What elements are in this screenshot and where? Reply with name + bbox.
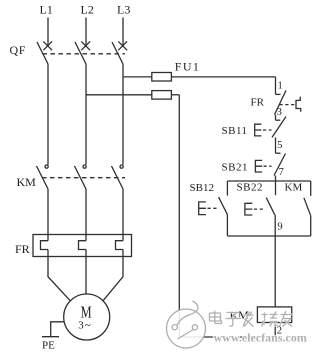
wire FR to SB11	[275, 115, 277, 121]
SB12 dashed link	[208, 207, 218, 209]
wire control bus corner down	[275, 77, 277, 95]
PE wire	[51, 322, 65, 337]
SB11 dashed link	[263, 129, 272, 131]
svg-text:9: 9	[277, 222, 282, 233]
svg-text:5: 5	[277, 140, 282, 151]
svg-text:L1: L1	[40, 3, 53, 17]
svg-text:www.elecfans.com: www.elecfans.com	[214, 331, 307, 345]
contactor KM main contact pole 3	[112, 165, 124, 189]
wire fuse FU1a to control bus	[171, 76, 275, 78]
pushbutton SB22 NO branch wires	[274, 181, 276, 236]
svg-text:FR: FR	[15, 242, 30, 256]
wire bottom return	[179, 336, 275, 338]
svg-text:L3: L3	[117, 3, 130, 17]
wire L3 KM to FR	[122, 189, 124, 241]
wire SB11 to SB21	[275, 137, 277, 153]
SB12 NO contact blade	[219, 197, 228, 215]
contactor KM main contact pole 2	[75, 165, 87, 189]
svg-text:7: 7	[279, 167, 284, 178]
FR heater element phase 2	[79, 241, 87, 250]
KM auxiliary contact branch wires	[310, 181, 312, 236]
svg-text:FR: FR	[251, 97, 265, 109]
svg-text:1: 1	[278, 81, 283, 92]
wire L3 FR to motor	[103, 250, 123, 301]
SB12 actuator	[199, 202, 206, 215]
contactor KM main contact pole 1	[37, 165, 49, 189]
pushbutton SB11 NC contact	[272, 117, 286, 138]
watermark text dianzifashaoyou	[210, 311, 293, 327]
svg-text:L2: L2	[81, 3, 94, 17]
watermark logo	[167, 301, 206, 348]
pushbutton SB21 NC contact	[274, 153, 286, 175]
svg-text:M: M	[81, 302, 92, 321]
wire L3 incoming	[122, 18, 124, 48]
svg-text:SB22: SB22	[237, 182, 263, 194]
wire L3 QF to KM	[122, 64, 124, 165]
parallel group top wire	[227, 180, 310, 182]
SB22 NO contact blade	[266, 198, 275, 215]
wire L3 to fuse FU1a	[123, 76, 152, 78]
pushbutton SB12 NO branch wires	[226, 181, 228, 236]
wire SB21 to parallel group	[275, 176, 277, 182]
KM dashed linkage	[42, 177, 125, 179]
motor M circle	[64, 294, 110, 340]
svg-text:QF: QF	[10, 43, 27, 57]
FR heater element phase 3	[116, 241, 124, 250]
wire L2 to fuse FU1b	[86, 94, 152, 96]
PE ground bar	[42, 336, 59, 338]
SB11 actuator	[255, 124, 262, 136]
svg-text:3~: 3~	[78, 320, 91, 332]
fuse FU1a	[152, 73, 172, 82]
FR trip dashed link	[280, 104, 295, 106]
fuse FU1b	[152, 91, 172, 100]
svg-text:3: 3	[277, 107, 282, 118]
wire L2 KM to FR	[85, 189, 87, 241]
wire L2 incoming	[85, 18, 87, 48]
svg-text:SB21: SB21	[222, 161, 248, 173]
svg-text:FU1: FU1	[175, 60, 201, 74]
FR heater element phase 1	[41, 241, 49, 250]
circuit breaker QF pole 2	[75, 41, 90, 64]
svg-text:KM: KM	[17, 175, 37, 189]
contactor coil KM	[257, 307, 291, 323]
parallel group bottom wire	[227, 235, 310, 237]
wire coil to bottom return	[274, 323, 276, 338]
QF dashed linkage	[43, 53, 126, 55]
wire fuse FU1b to return bus	[171, 94, 179, 96]
wire L2 QF to KM	[85, 64, 87, 165]
SB22 dashed link	[254, 208, 264, 210]
wire control return bus	[178, 95, 180, 337]
FR NC contact fixed tick	[276, 93, 281, 95]
svg-text:SB11: SB11	[222, 125, 248, 137]
wire L1 KM to FR	[47, 189, 49, 241]
SB21 actuator	[255, 160, 262, 172]
wire L1 QF to KM	[47, 64, 49, 165]
wire L2 FR to motor	[85, 250, 87, 295]
thermal overload FR box	[33, 235, 132, 257]
circuit breaker QF pole 3	[112, 41, 127, 64]
wire L1 FR to motor	[48, 250, 70, 301]
FR heater crank symbol	[296, 97, 301, 112]
svg-text:KM: KM	[285, 182, 303, 194]
KM auxiliary NO contact blade	[304, 198, 311, 216]
wire L1 incoming	[47, 18, 49, 48]
wire parallel group to coil	[274, 236, 276, 307]
FR NC contact blade	[275, 90, 287, 114]
SB22 actuator	[245, 203, 252, 215]
circuit breaker QF pole 1	[37, 41, 52, 64]
SB21 dashed link	[264, 165, 272, 167]
svg-text:PE: PE	[42, 340, 55, 352]
svg-text:SB12: SB12	[190, 182, 214, 194]
